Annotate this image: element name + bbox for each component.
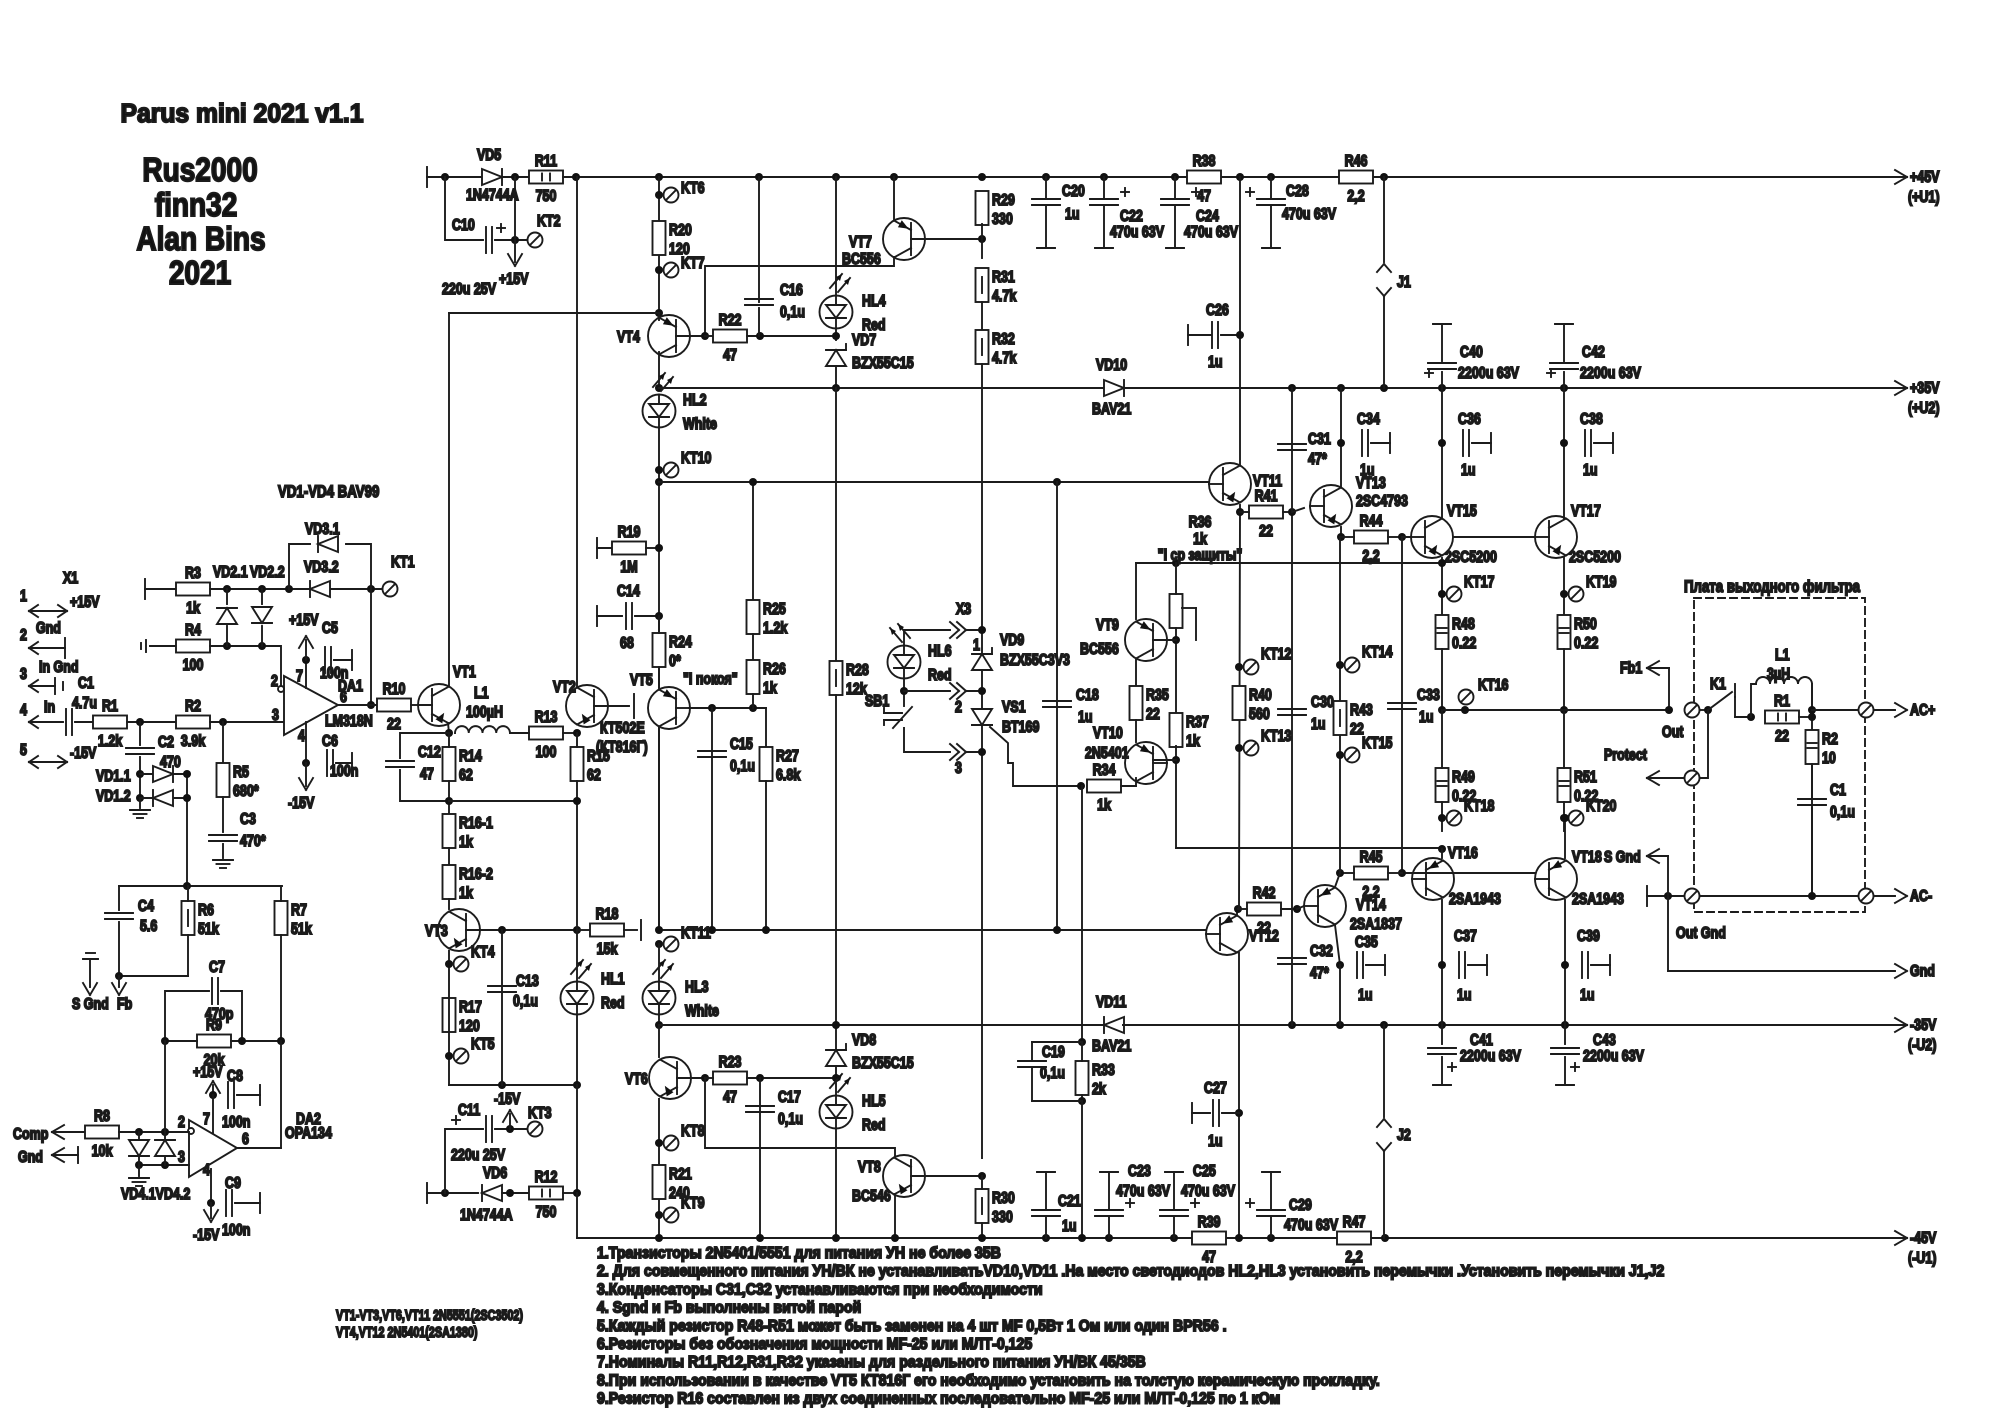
diode VD4.2 <box>155 1140 175 1156</box>
VT7 value <box>842 251 881 269</box>
svg-text:5.Каждый резистор R48-R51 може: 5.Каждый резистор R48-R51 может быть зам… <box>597 1317 1227 1335</box>
capacitor C33 <box>1388 703 1416 709</box>
svg-text:S Gnd: S Gnd <box>72 996 109 1014</box>
Gnd label DA2 <box>18 1149 43 1167</box>
svg-text:0,1u: 0,1u <box>778 1111 803 1129</box>
note line 8 <box>597 1372 1380 1390</box>
capacitor C41 <box>1428 1048 1456 1071</box>
svg-text:C38: C38 <box>1580 411 1603 429</box>
wire x576 to -45 rail <box>576 1193 578 1238</box>
wire HL6 bottom <box>903 679 905 706</box>
svg-text:47: 47 <box>1197 188 1211 206</box>
svg-text:White: White <box>683 416 717 434</box>
wire R44 leads <box>1341 536 1354 538</box>
junction <box>136 770 144 778</box>
svg-text:1k: 1k <box>186 600 200 618</box>
wire R23 right <box>747 1077 836 1079</box>
wire main mid rail <box>659 929 1207 931</box>
svg-text:BAV21: BAV21 <box>1092 401 1131 419</box>
wire VS1 gate <box>990 727 1081 786</box>
VT9 label <box>1096 617 1119 635</box>
svg-text:1u: 1u <box>1208 1133 1223 1151</box>
svg-text:"I ср защиты": "I ср защиты" <box>1158 547 1243 565</box>
resistor R23 <box>713 1054 747 1107</box>
svg-text:R38: R38 <box>1193 153 1216 171</box>
wire VT17 emitter <box>1563 558 1565 615</box>
svg-text:120: 120 <box>459 1018 480 1036</box>
svg-text:Red: Red <box>928 667 952 685</box>
test point KT20 <box>1569 798 1617 826</box>
svg-text:Плата выходного фильтра: Плата выходного фильтра <box>1684 578 1860 597</box>
wire DA2 out <box>237 1147 281 1149</box>
terminal bar C29 top <box>1262 1171 1280 1173</box>
note VT types 1 <box>336 1306 523 1323</box>
svg-text:KT20: KT20 <box>1586 798 1617 816</box>
resistor R35 <box>1130 686 1169 723</box>
test point KT19 <box>1569 574 1617 602</box>
junction <box>573 1189 581 1197</box>
svg-text:KT17: KT17 <box>1464 574 1495 592</box>
wire R5 to C3 <box>222 797 224 832</box>
junction <box>498 926 506 934</box>
svg-text:KT7: KT7 <box>681 255 705 273</box>
capacitor C2 <box>126 748 154 754</box>
svg-text:470u 63V: 470u 63V <box>1116 1183 1170 1201</box>
resistor R18 <box>590 906 624 959</box>
svg-text:2k: 2k <box>1092 1081 1106 1099</box>
svg-text:2SC4793: 2SC4793 <box>1356 493 1408 511</box>
wire R6 top <box>187 886 189 901</box>
wire C2 branch <box>139 722 141 745</box>
svg-text:KT6: KT6 <box>681 180 705 198</box>
svg-text:C11: C11 <box>458 1102 480 1120</box>
svg-text:KT3: KT3 <box>528 1105 552 1123</box>
svg-text:C42: C42 <box>1582 344 1605 362</box>
wire R14 top <box>448 733 450 747</box>
C11 value <box>451 1147 505 1165</box>
svg-text:VT6: VT6 <box>625 1071 648 1089</box>
wire x577 col a <box>576 801 578 930</box>
wire C4 left <box>118 886 120 910</box>
wire VD1 to ground <box>139 798 141 808</box>
svg-text:2: 2 <box>20 627 27 645</box>
svg-text:R21: R21 <box>669 1166 692 1184</box>
svg-text:1: 1 <box>973 637 980 655</box>
wire J1 bottom <box>1383 296 1385 388</box>
svg-text:Out Gnd: Out Gnd <box>1676 925 1726 943</box>
VT17 value <box>1569 549 1621 567</box>
resistor R31 <box>976 268 1017 305</box>
junction <box>832 332 840 340</box>
svg-text:R28: R28 <box>846 662 869 680</box>
C30 labels <box>1311 694 1334 734</box>
svg-text:R2: R2 <box>1822 731 1838 749</box>
svg-text:6: 6 <box>242 1131 249 1149</box>
junction <box>367 701 375 709</box>
author finn32 <box>155 187 238 224</box>
wire R26 bottom <box>752 694 754 708</box>
svg-text:-45V: -45V <box>1910 1230 1937 1248</box>
wire C12 bottom <box>400 770 449 801</box>
C43 labels <box>1583 1032 1644 1066</box>
svg-text:R43: R43 <box>1350 702 1373 720</box>
svg-text:VD8: VD8 <box>852 1032 876 1050</box>
svg-text:C18: C18 <box>1076 687 1099 705</box>
wire VD1 right node <box>186 774 188 886</box>
wire C34 lead <box>1371 442 1390 444</box>
C13 value <box>513 993 538 1011</box>
VT4 label <box>617 329 640 347</box>
terminal C9 right <box>259 1193 261 1213</box>
svg-text:(-U1): (-U1) <box>1908 1250 1937 1268</box>
svg-text:C26: C26 <box>1206 302 1229 320</box>
wire C36 lead <box>1472 442 1491 444</box>
capacitor C39 <box>1577 928 1600 1005</box>
terminal C38 right <box>1612 433 1614 453</box>
svg-text:J2: J2 <box>1397 1127 1411 1145</box>
resistor R50 <box>1558 615 1599 652</box>
arrow -45V <box>1895 1230 1937 1268</box>
wire VD7 to +35 rail <box>835 366 837 388</box>
junction <box>367 585 375 593</box>
svg-text:HL5: HL5 <box>862 1093 886 1111</box>
svg-text:4. Sgnd и Fb выполнены витой п: 4. Sgnd и Fb выполнены витой парой <box>597 1299 861 1317</box>
wire R33 bottom <box>1081 1095 1083 1101</box>
Protect arrow <box>1647 771 1684 785</box>
junction <box>1235 663 1243 671</box>
wire R16-1 to R16-2 <box>448 848 450 865</box>
svg-text:+15V: +15V <box>499 271 529 289</box>
svg-text:R5: R5 <box>233 764 249 782</box>
wire R42 right <box>1281 908 1297 910</box>
junction <box>511 236 519 244</box>
svg-text:KT1: KT1 <box>391 554 415 572</box>
resistor R19 <box>612 524 646 577</box>
junction <box>498 1081 506 1089</box>
wire R12 right <box>563 1192 577 1194</box>
transistor VT15 <box>1411 516 1453 558</box>
wire VT14 emitter to rail <box>1339 965 1341 1025</box>
junction <box>1172 559 1180 567</box>
VT16 label <box>1448 845 1478 863</box>
wire VD2.1 stub2 <box>226 626 228 646</box>
junction <box>1078 1038 1086 1046</box>
junction <box>573 797 581 805</box>
wire R9 right <box>231 1040 281 1042</box>
VT15 label <box>1447 503 1477 521</box>
op-amp DA1 <box>271 668 373 746</box>
svg-text:2. Для совмещенного питания УН: 2. Для совмещенного питания УН/ВК не уст… <box>597 1262 1664 1280</box>
svg-text:R10: R10 <box>383 681 406 699</box>
LED HL4 <box>820 274 886 334</box>
junction <box>277 1037 285 1045</box>
svg-text:1.Транзисторы 2N5401/5551 для: 1.Транзисторы 2N5401/5551 для питания УН… <box>597 1244 1001 1262</box>
svg-text:R17: R17 <box>459 999 482 1017</box>
junction <box>1438 1021 1446 1029</box>
junction <box>1560 439 1568 447</box>
VD3.2 label <box>304 559 339 577</box>
svg-text:R16-2: R16-2 <box>459 866 493 884</box>
junction <box>1704 706 1712 714</box>
capacitor C11 <box>486 1116 492 1142</box>
capacitor C38 <box>1580 411 1603 480</box>
svg-text:R18: R18 <box>596 906 619 924</box>
capacitor C1 <box>66 675 97 735</box>
capacitor C40 <box>1428 363 1456 369</box>
junction <box>135 1128 143 1136</box>
junction <box>655 384 663 392</box>
junction <box>1053 926 1061 934</box>
VT8 label <box>858 1159 881 1177</box>
wire bases link <box>1402 536 1535 538</box>
junction <box>1337 533 1345 541</box>
VT18 value <box>1572 891 1624 909</box>
VD10 label <box>1096 357 1127 375</box>
svg-text:2: 2 <box>271 673 278 691</box>
wire +35V rail left <box>659 387 1105 389</box>
wire HL1 top <box>576 930 578 981</box>
C18 label <box>1076 687 1099 705</box>
wire C21 bottom <box>1045 1217 1047 1238</box>
svg-text:Red: Red <box>601 995 625 1013</box>
wire R37 bottom to VT10 base <box>1175 746 1177 848</box>
svg-text:HL1: HL1 <box>601 971 625 989</box>
junction <box>655 1021 663 1029</box>
wire C19 legs2 <box>1031 1067 1033 1101</box>
terminal bar C25 top <box>1165 1171 1183 1173</box>
terminal C8 right <box>259 1085 261 1105</box>
diode VD7 <box>826 344 846 366</box>
VT2 label <box>553 679 576 697</box>
terminal C35 right <box>1384 955 1386 975</box>
junction <box>1077 782 1085 790</box>
wire protection node rail <box>1136 562 1442 564</box>
wire C42 to rail <box>1563 372 1565 388</box>
C7 value <box>205 1006 234 1024</box>
wire C13 column <box>501 930 503 1085</box>
Comp arrow <box>52 1125 64 1139</box>
junction <box>832 384 840 392</box>
svg-text:R51: R51 <box>1574 769 1597 787</box>
svg-text:R29: R29 <box>992 192 1015 210</box>
terminal R3 left <box>144 579 146 599</box>
svg-text:Protect: Protect <box>1604 747 1647 765</box>
svg-text:-35V: -35V <box>1910 1017 1937 1035</box>
terminal bar C24 bottom <box>1166 247 1184 249</box>
wire C31 column <box>1291 388 1293 510</box>
svg-text:1k: 1k <box>1097 797 1111 815</box>
capacitor C14 <box>617 583 640 653</box>
junction <box>302 759 310 767</box>
diode VD4.1 <box>129 1140 149 1156</box>
C20 labels <box>1062 183 1085 224</box>
svg-text:C3: C3 <box>240 811 256 829</box>
C3 label <box>240 811 256 829</box>
C12 value <box>420 766 434 784</box>
svg-text:51k: 51k <box>198 921 219 939</box>
capacitor C5 <box>320 620 348 683</box>
VT1 label <box>453 664 476 682</box>
svg-text:KT14: KT14 <box>1362 644 1393 662</box>
C41 labels <box>1460 1032 1521 1066</box>
svg-text:7: 7 <box>203 1111 210 1129</box>
svg-text:100n: 100n <box>222 1114 250 1132</box>
VT13 label <box>1356 475 1386 493</box>
svg-text:2SA1943: 2SA1943 <box>1572 891 1624 909</box>
junction <box>1438 961 1446 969</box>
transistor VT18 <box>1535 858 1577 900</box>
svg-text:C1: C1 <box>78 675 94 693</box>
svg-text:R20: R20 <box>669 222 692 240</box>
junction <box>756 332 764 340</box>
wire VT4 emitter up <box>658 313 660 320</box>
note line 4 <box>597 1299 861 1317</box>
svg-text:R7: R7 <box>291 902 307 920</box>
Fb label <box>117 996 132 1014</box>
wire VD1.2 row <box>140 797 187 799</box>
arrow Gnd right <box>1895 963 1935 981</box>
relay contact K1 <box>1708 676 1735 717</box>
resistor R24 <box>653 633 692 670</box>
wire HL4 top <box>835 177 837 296</box>
C4 value <box>140 918 157 936</box>
VT11 label <box>1253 473 1282 491</box>
svg-text:C16: C16 <box>780 282 803 300</box>
svg-text:C21: C21 <box>1058 1193 1081 1211</box>
wire feedback node <box>370 589 372 705</box>
svg-text:22: 22 <box>387 716 401 734</box>
wire R28 column top <box>835 388 837 661</box>
capacitor C17 <box>746 1106 774 1112</box>
VD3.1 label <box>305 521 340 539</box>
VD9 label <box>1000 632 1024 650</box>
arrow +45V <box>1895 169 1940 207</box>
C40 plus and labels <box>1425 344 1519 383</box>
svg-text:2: 2 <box>178 1114 185 1132</box>
svg-text:Comp: Comp <box>13 1126 49 1144</box>
Fb1 label <box>1620 660 1642 678</box>
junction <box>1267 1234 1275 1242</box>
wire R2f to C1f <box>1811 764 1813 797</box>
wire C11 branch <box>445 1129 483 1193</box>
svg-text:C13: C13 <box>516 973 539 991</box>
svg-text:(+U1): (+U1) <box>1908 189 1940 207</box>
junction <box>219 718 227 726</box>
wire fb top rail <box>119 885 282 887</box>
junction <box>655 544 663 552</box>
svg-text:3: 3 <box>20 666 27 684</box>
junction <box>207 1199 215 1207</box>
wire x1082 column <box>1081 786 1083 1042</box>
svg-text:VT17: VT17 <box>1571 503 1601 521</box>
wire DA1 out <box>338 704 377 706</box>
wire R41 leads <box>1240 511 1249 513</box>
pin3 number <box>955 760 962 778</box>
svg-text:2SC5200: 2SC5200 <box>1445 549 1497 567</box>
wire C7 right <box>221 991 242 1041</box>
wire VT6 base corner <box>705 1078 895 1157</box>
junction <box>445 797 453 805</box>
test point KT9 <box>664 1195 705 1223</box>
capacitor C27 <box>1204 1080 1227 1151</box>
VT14 label <box>1356 897 1386 915</box>
svg-text:10: 10 <box>1822 750 1836 768</box>
wire R22 right to HL4 node <box>747 335 836 337</box>
svg-text:1u: 1u <box>1580 987 1595 1005</box>
VD1-VD4 BAV99 header <box>278 483 379 502</box>
svg-text:47*: 47* <box>1310 965 1329 983</box>
wire pin2 column up <box>164 1041 166 1132</box>
svg-text:330: 330 <box>992 1209 1013 1227</box>
test point KT17 <box>1447 574 1495 602</box>
terminal C27 left <box>1191 1103 1193 1123</box>
svg-text:15k: 15k <box>597 941 618 959</box>
transistor VT3 <box>438 909 480 951</box>
terminal bar C41 bottom <box>1433 1084 1451 1086</box>
terminal bar C28 bottom <box>1262 247 1280 249</box>
junction <box>445 1052 453 1060</box>
wire comp to R8 <box>52 1131 85 1133</box>
junction <box>1664 892 1672 900</box>
resistor R41 <box>1249 488 1283 541</box>
resistor R46 <box>1339 153 1373 206</box>
wire VD2.1 stub <box>226 589 228 604</box>
resistor R33 <box>1076 1061 1115 1098</box>
transistor VT8 <box>883 1155 925 1197</box>
test point KT12 <box>1244 646 1292 675</box>
wire VT16 emitter down <box>1441 900 1443 1025</box>
capacitor C35 <box>1355 934 1378 1005</box>
svg-text:47: 47 <box>723 347 737 365</box>
wire +35V rail right <box>1123 387 1907 389</box>
wire L1 left leg <box>1751 684 1756 717</box>
VT9 value <box>1080 641 1119 659</box>
R36 wiper <box>1182 608 1196 640</box>
wire +15 to pin7 DA2 <box>212 1095 214 1134</box>
svg-text:Parus mini 2021 v1.1: Parus mini 2021 v1.1 <box>121 99 364 128</box>
svg-text:22: 22 <box>1259 523 1273 541</box>
svg-text:R14: R14 <box>459 748 482 766</box>
svg-text:VD9: VD9 <box>1000 632 1024 650</box>
wire R35 to VT10 <box>1135 720 1137 742</box>
svg-text:(-U2): (-U2) <box>1908 1037 1937 1055</box>
VT18 label <box>1572 849 1602 867</box>
svg-text:Fb1: Fb1 <box>1620 660 1642 678</box>
year 2021 <box>169 255 231 292</box>
junction <box>1398 869 1406 877</box>
connector X1 pin4 <box>20 699 63 728</box>
svg-text:VD3.2: VD3.2 <box>304 559 339 577</box>
svg-text:R11: R11 <box>535 153 557 171</box>
transistor VT17 <box>1535 516 1577 558</box>
S Gnd label right <box>1604 849 1641 867</box>
S Gnd label <box>72 996 109 1014</box>
svg-text:Red: Red <box>862 1117 886 1135</box>
resistor R25 <box>747 600 788 637</box>
svg-text:SB1: SB1 <box>865 693 889 711</box>
wire C39 lead <box>1591 964 1610 966</box>
svg-text:0,1u: 0,1u <box>513 993 538 1011</box>
wire VT9 collector to R35 <box>1135 660 1137 686</box>
junction <box>900 687 908 695</box>
resistor R6 <box>182 901 219 938</box>
terminal R19 left <box>596 538 598 558</box>
plus sign C10 <box>497 224 505 232</box>
wire R36 top <box>1175 563 1177 594</box>
test point AC- KT <box>1859 889 1874 904</box>
junction <box>1561 961 1569 969</box>
svg-text:+15V: +15V <box>70 594 100 612</box>
